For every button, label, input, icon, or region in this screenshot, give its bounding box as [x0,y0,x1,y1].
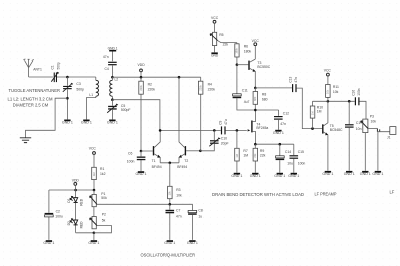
svg-text:VCC: VCC [89,147,97,151]
svg-text:DIAMETER 2.5 CM: DIAMETER 2.5 CM [13,102,49,107]
svg-text:D2: D2 [67,221,71,225]
svg-text:C10: C10 [221,137,227,141]
svg-text:47n: 47n [176,214,182,218]
svg-text:C1: C1 [51,65,55,69]
svg-text:R2: R2 [148,82,152,86]
svg-text:4u7: 4u7 [244,100,250,104]
svg-text:1k2: 1k2 [100,172,106,176]
svg-text:RED: RED [80,221,84,229]
svg-text:1M: 1M [236,154,239,157]
svg-text:500p: 500p [56,62,60,69]
svg-text:1k2: 1k2 [93,172,96,177]
svg-text:R11: R11 [333,85,339,89]
svg-text:220k: 220k [208,88,216,92]
svg-text:R3: R3 [176,188,180,192]
svg-text:47n: 47n [103,55,109,59]
svg-text:LF: LF [390,189,395,194]
svg-text:GND 1: GND 1 [108,46,118,50]
svg-text:C16: C16 [352,90,356,96]
svg-text:VDD: VDD [138,63,146,67]
svg-text:T2: T2 [184,159,188,163]
svg-text:680: 680 [262,98,268,102]
svg-text:10k: 10k [333,90,339,94]
svg-text:ANT1: ANT1 [33,67,42,71]
svg-text:220k: 220k [200,84,203,90]
svg-text:D1: D1 [67,198,71,202]
svg-text:100n: 100n [357,88,361,95]
svg-text:C9: C9 [218,121,222,125]
svg-text:DRAIN BEND DETECTOR WITH ACTIV: DRAIN BEND DETECTOR WITH ACTIVE LOAD [212,192,304,197]
svg-text:R1: R1 [100,167,104,171]
svg-text:20pF: 20pF [221,141,229,145]
svg-text:C15: C15 [298,150,304,154]
svg-text:220k: 220k [148,88,156,92]
svg-text:100n: 100n [298,162,306,166]
svg-text:22k: 22k [260,154,266,158]
svg-text:500p: 500p [76,88,84,92]
svg-text:47u: 47u [224,119,228,125]
svg-text:C7: C7 [176,209,180,213]
svg-text:C11: C11 [242,88,248,92]
svg-text:OSCILLATOR/Q-MULTIPLIER: OSCILLATOR/Q-MULTIPLIER [141,252,196,257]
svg-text:22k: 22k [223,42,229,46]
svg-text:C8: C8 [198,209,202,213]
svg-text:BC548C: BC548C [330,128,343,132]
svg-text:100u: 100u [55,215,63,219]
svg-text:VCC: VCC [211,16,219,20]
svg-text:BF494: BF494 [152,165,162,169]
svg-text:47n: 47n [280,122,286,126]
svg-text:BF245a: BF245a [256,126,268,130]
svg-text:C13: C13 [289,76,293,82]
svg-text:680: 680 [254,96,257,101]
svg-text:RED: RED [80,198,84,206]
svg-text:BF494: BF494 [177,165,187,169]
svg-text:47n: 47n [294,77,298,83]
svg-text:1M: 1M [317,109,322,113]
svg-text:180k: 180k [244,50,252,54]
svg-text:C12: C12 [283,111,289,115]
svg-text:L1 L2: LENGTH 3.2 CM: L1 L2: LENGTH 3.2 CM [8,96,54,101]
svg-text:L2: L2 [115,77,119,81]
svg-text:VDD: VDD [72,179,80,183]
svg-text:C3: C3 [76,82,80,86]
svg-text:500pF: 500pF [121,108,131,112]
svg-text:50k: 50k [101,196,107,200]
svg-text:L1: L1 [89,93,93,97]
svg-text:R8: R8 [262,92,266,96]
svg-text:C4: C4 [104,67,108,71]
svg-text:1M: 1M [311,112,314,115]
svg-text:C6: C6 [128,151,132,155]
svg-text:R9: R9 [260,149,264,153]
svg-text:P3: P3 [370,114,374,118]
svg-text:100n: 100n [127,159,135,163]
svg-text:180k: 180k [236,47,239,53]
svg-text:10k: 10k [176,194,182,198]
svg-text:VCC: VCC [252,39,260,43]
svg-text:10k: 10k [371,119,377,123]
svg-text:P2: P2 [102,212,106,216]
svg-text:LF PREAMP: LF PREAMP [315,192,337,197]
svg-text:T1: T1 [152,159,156,163]
svg-text:5k: 5k [102,218,106,222]
svg-text:10n: 10n [356,127,362,131]
svg-text:R4: R4 [208,82,212,86]
svg-text:C2: C2 [56,209,60,213]
svg-text:10u: 10u [287,162,293,166]
svg-text:BC550C: BC550C [257,65,270,69]
svg-text:TUGGLE ANTENNATUNER: TUGGLE ANTENNATUNER [9,88,61,93]
svg-text:C14: C14 [285,150,291,154]
svg-text:VCC: VCC [324,69,332,73]
svg-text:R6: R6 [244,45,248,49]
svg-text:220k: 220k [140,84,143,90]
svg-text:J1: J1 [387,135,391,139]
svg-text:R7: R7 [243,149,247,153]
svg-text:1u: 1u [198,214,202,218]
svg-text:1M: 1M [243,154,248,158]
svg-text:R5: R5 [219,33,223,37]
svg-text:GND: GND [211,54,219,58]
